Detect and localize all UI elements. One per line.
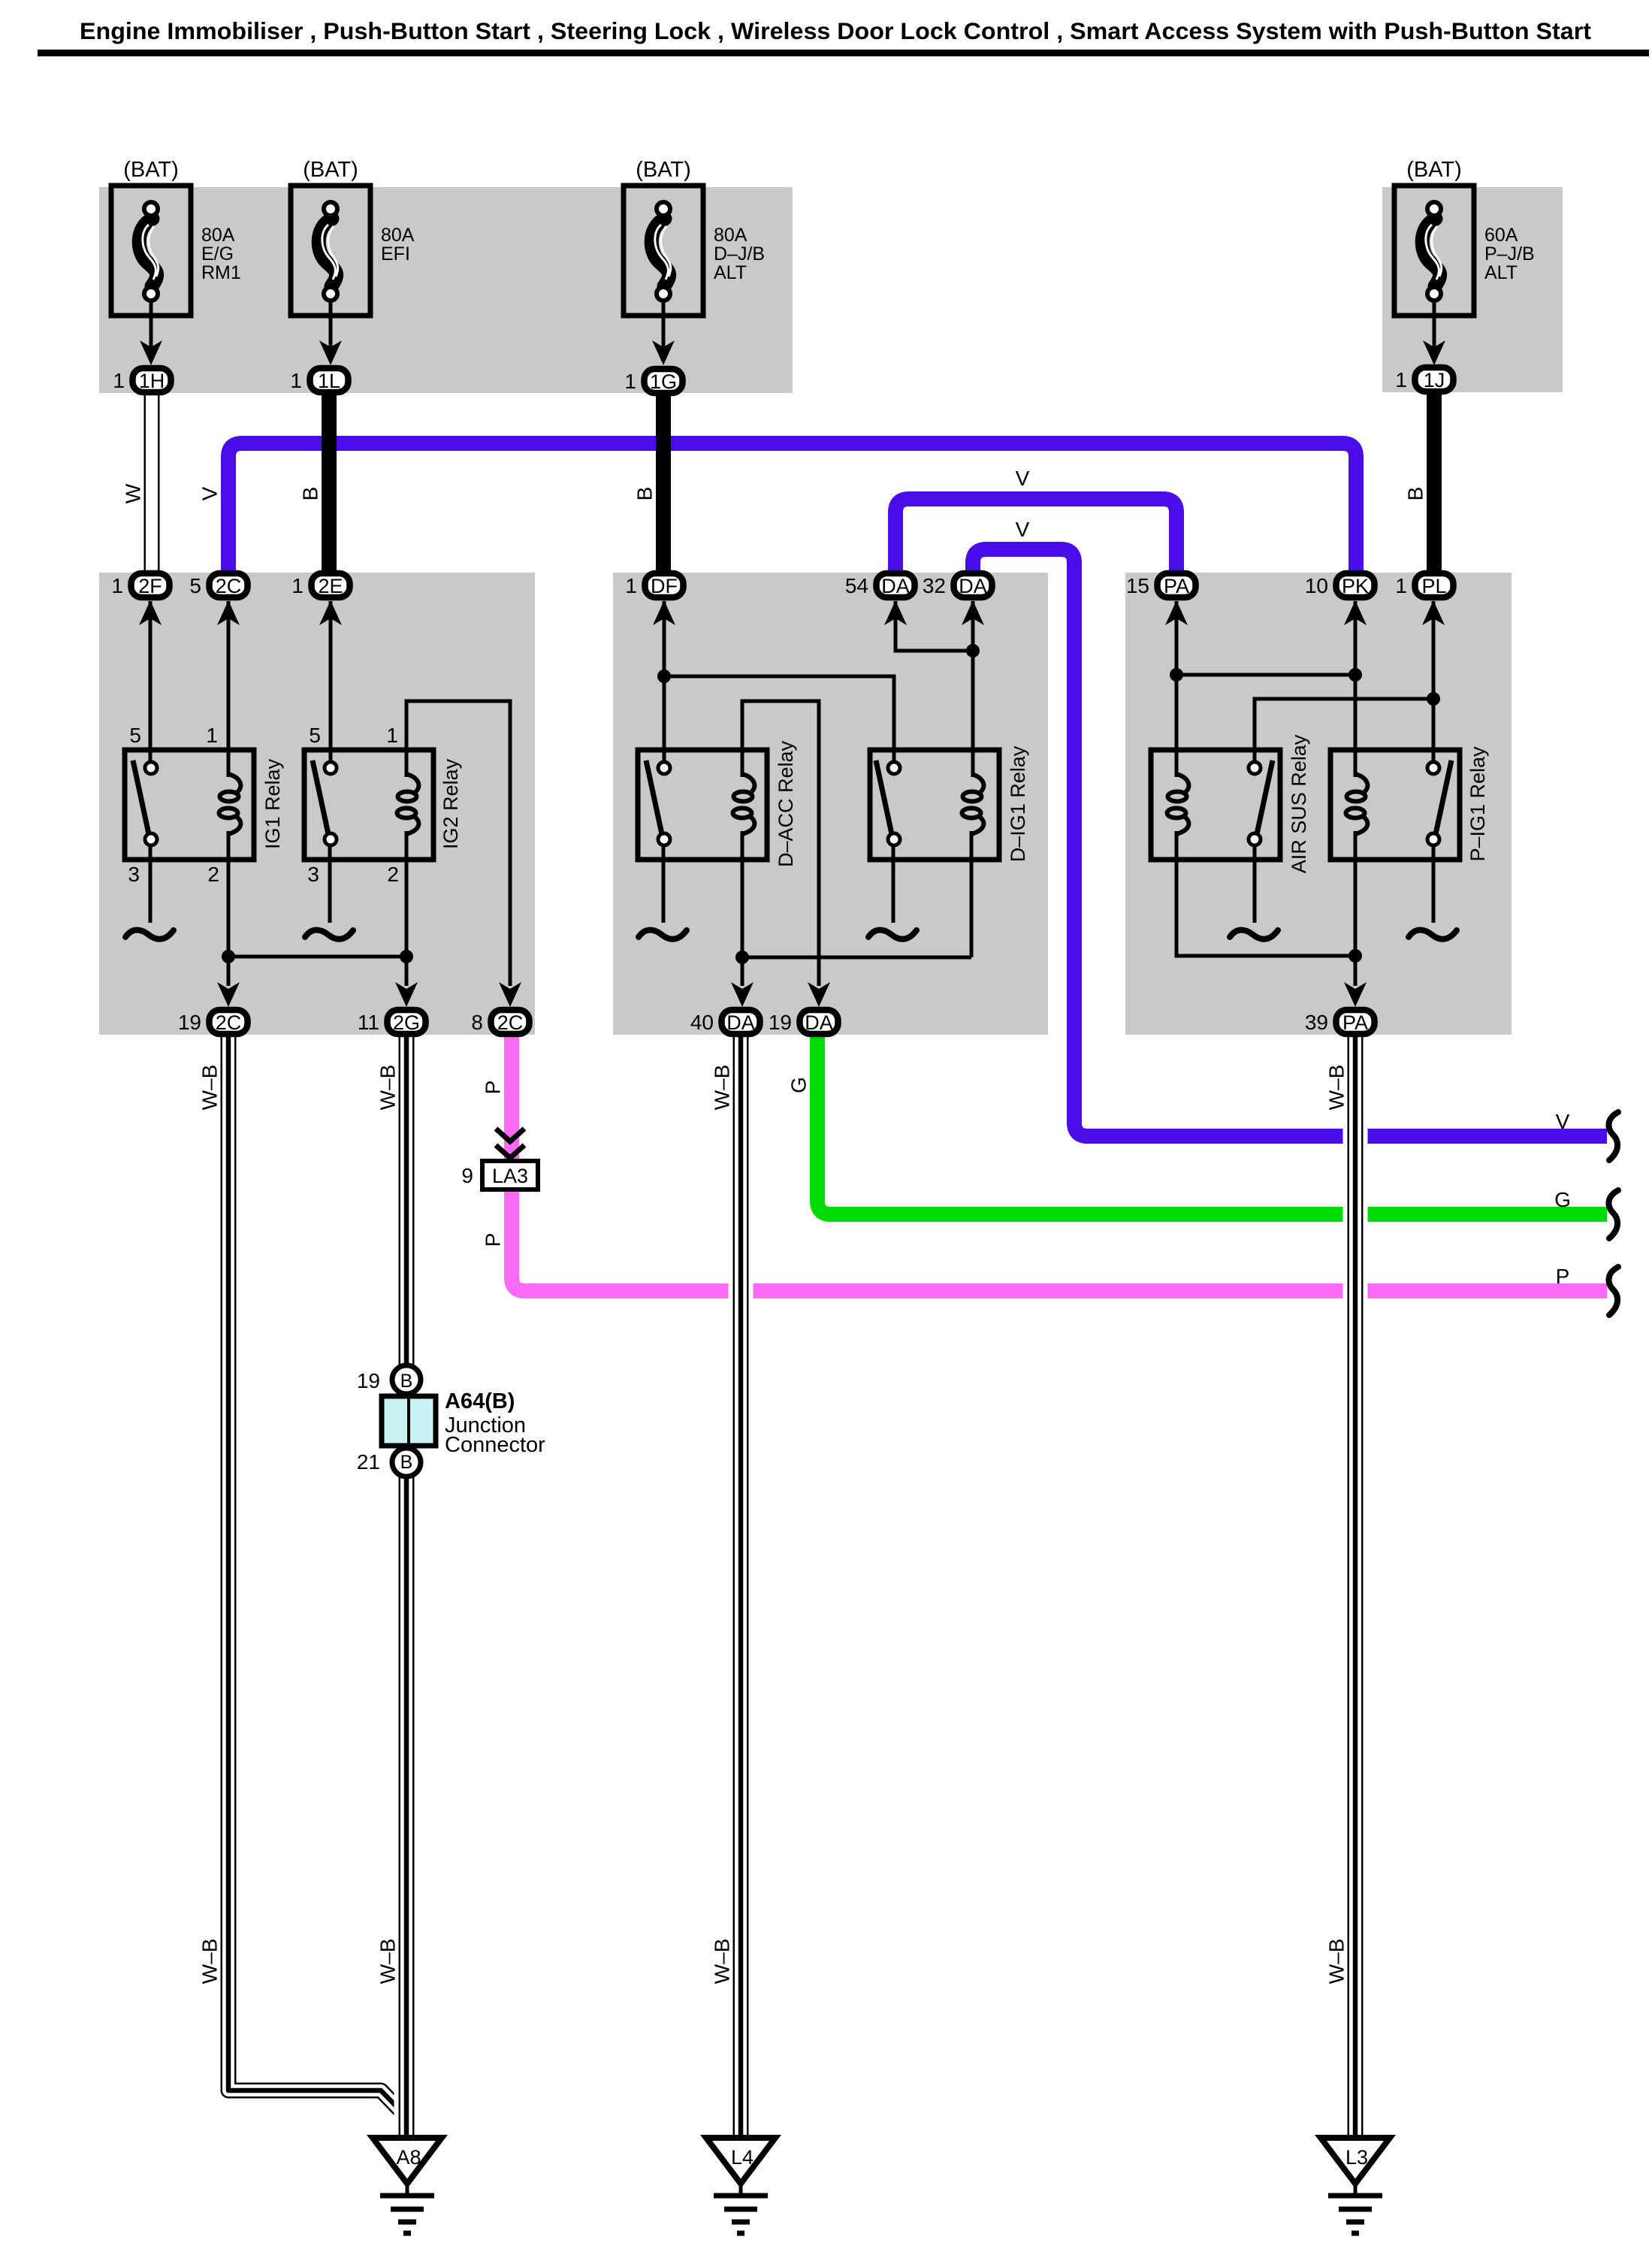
- wire B: 1G to DF: [656, 392, 671, 574]
- open end (AIR SUS): [1230, 930, 1278, 939]
- svg-text:5: 5: [309, 724, 321, 747]
- label V (DA54-PA15 wire): [1016, 467, 1030, 490]
- svg-text:V: V: [1016, 518, 1030, 541]
- node 2C pin 5: [189, 573, 247, 597]
- junction: PK node: [1348, 668, 1362, 682]
- fuse 60A P-J/B ALT: [1394, 158, 1535, 365]
- wire V: violet from 2C pin 5 to PK pin 10: [228, 443, 1356, 579]
- wire: D-IG1 coil bottom: [970, 831, 974, 957]
- arrow into PA pin 39: [1344, 982, 1367, 1007]
- svg-text:1: 1: [113, 369, 125, 392]
- label W-B (2G11 wire upper): [376, 1065, 400, 1111]
- junction: P-IG1 coil node: [1348, 949, 1362, 963]
- arrow out of 2C pin 5: [217, 600, 240, 625]
- wire: IG2 relay pin 3 to open end: [328, 845, 332, 923]
- svg-text:V: V: [1016, 467, 1030, 490]
- svg-text:8: 8: [471, 1011, 483, 1034]
- label V (2C wire): [198, 486, 222, 500]
- node DF pin 1: [625, 573, 683, 597]
- svg-text:1: 1: [290, 369, 302, 392]
- svg-text:1: 1: [206, 724, 218, 747]
- wire: PL branch to AIR SUS switch: [1255, 699, 1433, 763]
- label W-B (2G11 wire lower): [376, 1939, 400, 1985]
- svg-text:PA: PA: [1342, 1011, 1368, 1034]
- wire W: 1H to 2F: [144, 394, 160, 574]
- svg-text:80A: 80A: [714, 225, 747, 246]
- node 2C pin 19: [178, 1010, 248, 1034]
- svg-text:11: 11: [358, 1011, 379, 1034]
- svg-text:G: G: [1554, 1188, 1571, 1211]
- wire: AIR SUS switch to open end: [1253, 845, 1257, 923]
- svg-text:21: 21: [357, 1450, 380, 1474]
- svg-text:1G: 1G: [650, 370, 677, 393]
- svg-text:G: G: [787, 1077, 811, 1093]
- svg-text:2: 2: [207, 863, 219, 886]
- arrow into 2C pin 8: [499, 982, 521, 1007]
- svg-text:(BAT): (BAT): [1406, 158, 1462, 182]
- label B (1L wire): [299, 487, 322, 501]
- svg-text:W–B: W–B: [198, 1939, 222, 1985]
- svg-text:AIR SUS Relay: AIR SUS Relay: [1288, 734, 1310, 873]
- svg-text:L4: L4: [731, 2146, 754, 2169]
- wire G: green from DA pin 19 to right edge: [817, 1035, 1607, 1214]
- node 2C pin 8: [471, 1010, 529, 1034]
- svg-text:54: 54: [845, 574, 868, 597]
- wire: D-ACC coil down to DA pin 40: [741, 831, 744, 986]
- svg-text:B: B: [400, 1452, 413, 1473]
- svg-text:DA: DA: [726, 1011, 755, 1034]
- svg-text:1: 1: [111, 574, 123, 597]
- svg-text:PL: PL: [1421, 575, 1446, 597]
- svg-text:19: 19: [178, 1011, 201, 1034]
- relay D-IG1: [870, 745, 1029, 862]
- open end (IG1 pin 3): [125, 930, 174, 939]
- relay D-ACC: [638, 740, 797, 867]
- wire V: violet from DA pin 54 to PA pin 15: [895, 499, 1176, 579]
- svg-text:P–IG1 Relay: P–IG1 Relay: [1466, 746, 1489, 862]
- svg-text:2E: 2E: [318, 575, 343, 597]
- svg-text:RM1: RM1: [201, 262, 241, 283]
- svg-text:IG1 Relay: IG1 Relay: [261, 758, 284, 849]
- svg-text:DA: DA: [881, 575, 910, 597]
- svg-text:E/G: E/G: [201, 243, 234, 265]
- svg-text:1: 1: [625, 574, 637, 597]
- wire end curl (V): [1608, 1112, 1618, 1160]
- svg-text:(BAT): (BAT): [123, 158, 179, 182]
- svg-text:10: 10: [1305, 574, 1328, 597]
- svg-text:ALT: ALT: [714, 262, 747, 283]
- node 1H pin 1: [113, 368, 171, 392]
- node PL pin 1: [1395, 573, 1453, 597]
- panel: engine room junction block (top, BAT fuses): [99, 187, 793, 393]
- wire: DF branch to D-IG1 relay switch: [664, 676, 894, 763]
- svg-text:V: V: [1556, 1110, 1570, 1133]
- wire: AIR SUS coil bottom to bus: [1176, 831, 1355, 956]
- svg-text:W–B: W–B: [376, 1065, 400, 1111]
- wire: D-ACC coil pin loop to DA pin 19: [742, 701, 819, 986]
- wire: 2F to IG1 relay switch pin 5: [149, 601, 153, 763]
- wire end curl (P): [1608, 1267, 1618, 1315]
- svg-text:W: W: [122, 483, 145, 503]
- wire: P-IG1 coil down to PA pin 39: [1354, 831, 1358, 986]
- svg-text:PK: PK: [1342, 575, 1369, 597]
- wire: P-IG1 switch to open end: [1432, 845, 1436, 923]
- label W (1H wire): [122, 483, 145, 503]
- fuse 80A D-J/B ALT: [624, 158, 765, 365]
- wire: bus between IG1 pin 2 and IG2 pin 2: [228, 955, 406, 959]
- svg-text:1: 1: [1395, 574, 1407, 597]
- fuse 80A E/G RM1: [111, 158, 241, 365]
- junction: DF node: [657, 670, 671, 683]
- svg-text:2G: 2G: [393, 1011, 420, 1034]
- svg-text:Engine Immobiliser , Push-Butt: Engine Immobiliser , Push-Button Start ,…: [80, 17, 1592, 44]
- svg-text:DA: DA: [805, 1011, 833, 1034]
- open end (P-IG1): [1409, 930, 1457, 939]
- svg-text:19: 19: [769, 1011, 792, 1034]
- wire W-B: 2G pin 11 to ground A8: [394, 1037, 419, 2139]
- svg-text:B: B: [299, 487, 322, 501]
- wire W-B: DA pin 40 to ground L4: [729, 1037, 754, 2139]
- svg-text:80A: 80A: [381, 225, 415, 246]
- node DA pin 19: [769, 1010, 838, 1034]
- svg-text:1L: 1L: [318, 370, 340, 392]
- arrow into 2G pin 11: [395, 982, 418, 1007]
- junction: D-ACC coil node: [735, 951, 749, 964]
- panel: passenger junction block (top right fuse): [1382, 187, 1563, 392]
- svg-text:40: 40: [690, 1011, 714, 1034]
- svg-text:3: 3: [128, 863, 140, 886]
- svg-text:39: 39: [1305, 1011, 1328, 1034]
- svg-text:2C: 2C: [497, 1011, 524, 1034]
- wire: bus D-ACC coil to D-IG1 coil: [742, 956, 971, 960]
- label V (right edge): [1556, 1110, 1570, 1133]
- svg-text:Connector: Connector: [445, 1433, 545, 1457]
- node 2E pin 1: [291, 573, 349, 597]
- svg-text:D–IG1 Relay: D–IG1 Relay: [1007, 745, 1029, 862]
- label W-B (DA40 wire upper): [711, 1065, 734, 1111]
- svg-text:D–ACC Relay: D–ACC Relay: [775, 740, 797, 867]
- svg-text:1H: 1H: [139, 370, 165, 392]
- svg-text:W–B: W–B: [711, 1939, 734, 1985]
- wire: PK pin 10 to P-IG1 coil: [1354, 601, 1358, 777]
- svg-text:32: 32: [923, 574, 946, 597]
- svg-text:V: V: [198, 486, 222, 500]
- relay IG2: [304, 724, 462, 886]
- node DA pin 32: [923, 573, 992, 597]
- arrow out of PK pin 10: [1344, 600, 1367, 625]
- svg-text:IG2 Relay: IG2 Relay: [439, 758, 462, 849]
- junction connector A64(B): [357, 1365, 545, 1477]
- arrow out of DA pin 54: [884, 600, 907, 625]
- svg-text:9: 9: [461, 1164, 473, 1187]
- svg-text:W–B: W–B: [376, 1939, 400, 1985]
- svg-text:W–B: W–B: [1325, 1939, 1348, 1985]
- svg-text:80A: 80A: [201, 225, 235, 246]
- svg-text:2: 2: [387, 863, 399, 886]
- svg-text:PA: PA: [1164, 575, 1189, 597]
- label G (right edge): [1554, 1188, 1571, 1211]
- svg-text:D–J/B: D–J/B: [714, 243, 765, 265]
- wire: PA-PK bridge: [1176, 673, 1355, 677]
- svg-text:ALT: ALT: [1484, 262, 1518, 283]
- label P (right edge): [1556, 1265, 1570, 1288]
- arrow into DA pin 19: [808, 982, 830, 1007]
- wire: D-IG1 switch to open end: [892, 845, 895, 923]
- svg-text:P–J/B: P–J/B: [1484, 243, 1535, 265]
- arrow into DA pin 40: [731, 982, 754, 1007]
- arrow out of DF: [653, 600, 675, 625]
- svg-text:15: 15: [1126, 574, 1149, 597]
- open end (IG2 pin 3): [305, 930, 353, 939]
- svg-text:1: 1: [386, 724, 398, 747]
- svg-text:5: 5: [189, 574, 201, 597]
- label P (2C8 wire upper): [482, 1081, 505, 1095]
- wire W-B: PA pin 39 to ground L3: [1343, 1037, 1368, 2139]
- svg-text:P: P: [482, 1081, 505, 1095]
- label G (DA19 wire): [787, 1077, 811, 1093]
- label W-B (PA39 wire upper): [1325, 1065, 1348, 1111]
- node PA pin 15: [1126, 573, 1196, 597]
- svg-text:DA: DA: [959, 575, 987, 597]
- svg-text:2C: 2C: [216, 1011, 242, 1034]
- fuse 80A EFI: [291, 158, 415, 365]
- wire: DA pin 54 to DA pin 32 run: [895, 601, 973, 651]
- label W-B (2C19 wire lower): [198, 1939, 222, 1985]
- svg-text:2C: 2C: [216, 575, 242, 597]
- wire: IG2 relay coil pin 1 loop to connector 2C pin 8: [406, 701, 510, 986]
- node PA pin 39: [1305, 1010, 1375, 1034]
- arrow out of 2F: [139, 600, 162, 625]
- svg-text:B: B: [633, 487, 657, 501]
- svg-text:3: 3: [307, 863, 319, 886]
- wire: 2E to IG2 relay switch pin 5: [329, 601, 333, 763]
- ground A8: [373, 2138, 442, 2233]
- wire V: violet from DA pin 32 to right edge: [973, 549, 1607, 1136]
- svg-text:W–B: W–B: [1325, 1065, 1348, 1111]
- wire: 2C to IG1 relay coil pin 1: [227, 601, 231, 777]
- svg-text:1J: 1J: [1424, 369, 1445, 391]
- svg-text:1: 1: [1395, 368, 1407, 391]
- svg-text:(BAT): (BAT): [303, 158, 358, 182]
- svg-text:L3: L3: [1345, 2146, 1368, 2169]
- svg-text:EFI: EFI: [381, 243, 410, 265]
- svg-text:A8: A8: [396, 2146, 421, 2169]
- arrow into 2C pin 19: [217, 982, 240, 1007]
- label B (1J wire): [1404, 487, 1427, 501]
- relay IG1: [125, 724, 284, 886]
- svg-text:W–B: W–B: [711, 1065, 734, 1111]
- wire W-B: 2C pin 19 to ground junction: [228, 1037, 406, 2116]
- svg-text:LA3: LA3: [492, 1165, 528, 1187]
- connector LA3 (pin 9): [461, 1129, 538, 1190]
- svg-text:2F: 2F: [138, 575, 162, 597]
- label P (2C8 wire lower): [482, 1233, 505, 1247]
- wire: PL pin 1 to P-IG1 switch: [1432, 601, 1436, 763]
- svg-text:B: B: [1404, 487, 1427, 501]
- ground L4: [706, 2138, 775, 2233]
- node DA pin 54: [845, 573, 915, 597]
- arrow out of PA pin 15: [1165, 600, 1188, 625]
- open end (D-IG1): [868, 930, 917, 939]
- panel: relay block left (IG1/IG2 relays): [99, 573, 535, 1035]
- wire B: 1L to 2E: [322, 392, 337, 574]
- svg-text:(BAT): (BAT): [636, 158, 691, 182]
- svg-text:DF: DF: [651, 575, 678, 597]
- svg-text:19: 19: [357, 1369, 380, 1392]
- wire: DF to D-ACC relay switch: [663, 601, 666, 763]
- svg-text:P: P: [1556, 1265, 1570, 1288]
- relay AIR SUS: [1151, 734, 1310, 873]
- junction: PL node: [1427, 692, 1440, 706]
- node 2G pin 11: [358, 1010, 426, 1034]
- svg-text:W–B: W–B: [198, 1065, 222, 1111]
- svg-text:B: B: [400, 1371, 413, 1392]
- node PK pin 10: [1305, 573, 1375, 597]
- svg-text:A64(B): A64(B): [445, 1389, 515, 1413]
- wire: IG1 coil pin 2 down to 2C pin 19: [227, 831, 231, 986]
- node 1G pin 1: [624, 369, 682, 393]
- svg-text:P: P: [482, 1233, 505, 1247]
- wire: IG1 relay pin 3 to open end: [149, 845, 153, 923]
- label W-B (PA39 wire lower): [1325, 1939, 1348, 1985]
- wire: PA pin 15 to AIR SUS coil: [1175, 601, 1179, 777]
- panel: relay block right (AIR SUS / P-IG1 relays): [1125, 573, 1512, 1035]
- wire P: pink from 2C pin 8 through LA3 to right edge: [512, 1035, 1607, 1291]
- arrow out of 2E: [319, 600, 342, 625]
- arrow out of PL pin 1: [1422, 600, 1445, 625]
- junction: DA32 node: [966, 644, 980, 657]
- label W-B (2C19 wire upper): [198, 1065, 222, 1111]
- node DA pin 40: [690, 1010, 760, 1034]
- relay P-IG1: [1330, 746, 1489, 862]
- node 1L pin 1: [290, 368, 348, 392]
- wire end curl (G): [1608, 1190, 1618, 1238]
- junction: IG1 pin 2 node: [222, 950, 235, 963]
- title: system heading: [38, 17, 1649, 56]
- arrow out of DA pin 32: [962, 600, 984, 625]
- label W-B (DA40 wire lower): [711, 1939, 734, 1985]
- open end (D-ACC): [639, 930, 687, 939]
- svg-text:60A: 60A: [1484, 225, 1518, 246]
- label B (1G wire): [633, 487, 657, 501]
- node 2F pin 1: [111, 573, 169, 597]
- wire: D-ACC switch to open end: [662, 845, 666, 923]
- node 1J pin 1: [1395, 367, 1453, 391]
- svg-text:5: 5: [129, 724, 141, 747]
- label V (DA32 wire): [1016, 518, 1030, 541]
- svg-text:1: 1: [624, 370, 636, 393]
- wire: DA pin 32 to D-IG1 coil: [971, 601, 975, 777]
- junction: PA node: [1170, 668, 1183, 682]
- wire B: 1J to PL: [1427, 391, 1442, 574]
- panel: relay block middle (D-ACC / D-IG1 relays): [613, 573, 1048, 1035]
- svg-text:1: 1: [291, 574, 304, 597]
- wire: IG2 coil pin 2 down to 2G pin 11: [405, 831, 409, 986]
- ground L3: [1321, 2138, 1390, 2233]
- junction: IG2 pin 2 node: [400, 950, 413, 963]
